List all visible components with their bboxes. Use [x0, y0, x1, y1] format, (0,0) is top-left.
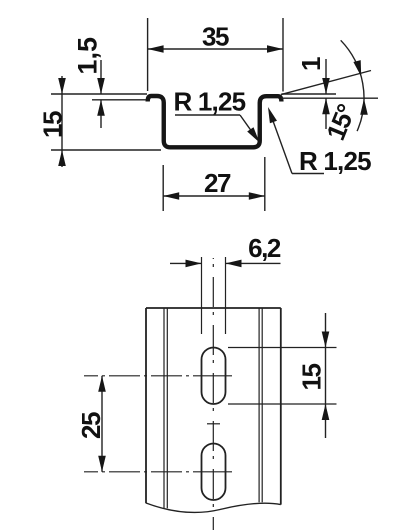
- dim 15 left: bottom arrow: [58, 150, 66, 166]
- DIN rail cross-section profile: [148, 96, 282, 147]
- dim 27: right arrow: [249, 192, 265, 200]
- dim 6,2: left arrow: [186, 260, 202, 268]
- dim 15 lower: top extension line: [228, 347, 337, 349]
- fold line right inner: [258, 308, 260, 502]
- svg-text:1: 1: [296, 57, 326, 71]
- dim 27: right extension line: [264, 157, 266, 211]
- svg-text:27: 27: [204, 168, 231, 198]
- dim 35: right extension line: [282, 18, 284, 92]
- dim 15 lower: dimension line: [325, 313, 327, 438]
- dim 15 lower: bottom extension line: [228, 403, 337, 405]
- slot 2 (lower obround): [202, 444, 226, 501]
- dim 25: bottom arrow: [98, 456, 106, 472]
- svg-text:R 1,25: R 1,25: [174, 87, 246, 117]
- R 1,25 top leader arrow: [247, 127, 259, 142]
- material thickness top line: [282, 93, 337, 95]
- dim 35: right arrow: [267, 45, 283, 53]
- R 1,25 bottom leader diagonal: [271, 114, 293, 174]
- angle dimension arc: [341, 40, 364, 131]
- dim 27: left arrow: [163, 192, 179, 200]
- dim 6,2: right arrow: [226, 260, 242, 268]
- dim 15 left: dimension line: [61, 76, 63, 167]
- dim 15 lower: top arrow: [322, 332, 330, 348]
- dim 27: left extension line: [162, 165, 164, 211]
- dim 1: lower dimension line stub: [325, 98, 327, 129]
- dim 35: dimension line: [148, 48, 283, 50]
- dim 35: left arrow: [148, 45, 164, 53]
- R 1,25 top leader diagonal: [240, 115, 256, 138]
- slot 1 (upper obround): [202, 348, 226, 405]
- material thickness bottom line: [282, 97, 379, 99]
- dim 15 lower: bottom arrow: [322, 404, 330, 420]
- angle arc upper arrow: [353, 60, 361, 76]
- dim 1: upper dimension line stub: [325, 59, 327, 94]
- dim 1,5: lower dimension line stub: [100, 100, 102, 128]
- dim 1,5: upper dimension line stub: [100, 60, 102, 94]
- strip left edge: [145, 308, 147, 503]
- fold line left outer: [163, 308, 165, 508]
- dim 25: top arrow: [98, 376, 106, 392]
- dim 1: lower arrow: [322, 98, 330, 114]
- vertical centerline (dash-dot): [212, 258, 214, 530]
- slot1 horizontal centerline (dash-dot): [84, 375, 232, 377]
- dim 35: left extension line: [147, 18, 149, 91]
- svg-text:1,5: 1,5: [72, 37, 102, 75]
- angle arc lower arrow: [360, 99, 368, 115]
- dim 25: dimension line: [101, 376, 103, 472]
- dim 15 left: top arrow: [58, 78, 66, 94]
- dim 1,5: lower arrow: [97, 100, 105, 116]
- dim 6,2: left dimension line: [170, 262, 202, 264]
- strip top edge: [146, 307, 281, 309]
- dim 6,2: right extension line: [225, 257, 227, 334]
- dim 6,2: right dimension line: [226, 262, 281, 264]
- 15 degree slope line: [281, 71, 371, 95]
- R 1,25 bottom leader underline: [292, 173, 324, 175]
- break wavy line: [146, 503, 281, 512]
- svg-text:6,2: 6,2: [248, 233, 281, 263]
- R 1,25 bottom leader arrow: [268, 107, 277, 123]
- R 1,25 top leader underline: [175, 114, 240, 116]
- dim 1: upper arrow: [322, 78, 330, 94]
- dim 6,2: left extension line: [201, 257, 203, 334]
- strip right edge: [280, 308, 282, 505]
- svg-text:15: 15: [38, 111, 68, 138]
- fold line left inner: [166, 308, 168, 508]
- fold line right outer: [261, 308, 263, 502]
- svg-text:15: 15: [297, 364, 327, 391]
- svg-text:35: 35: [202, 22, 229, 52]
- dim 1,5: upper arrow: [97, 78, 105, 94]
- dim 15 left: bottom extension line: [51, 149, 161, 151]
- dim 1,5: bottom extension line: [92, 99, 146, 101]
- midpoint tick between slots: [207, 423, 220, 425]
- svg-text:R 1,25: R 1,25: [299, 146, 371, 176]
- dim 27: dimension line: [163, 195, 265, 197]
- slot2 horizontal centerline (dash-dot): [84, 471, 232, 473]
- svg-text:25: 25: [76, 412, 106, 439]
- dim 1,5: top shared extension line: [51, 93, 147, 95]
